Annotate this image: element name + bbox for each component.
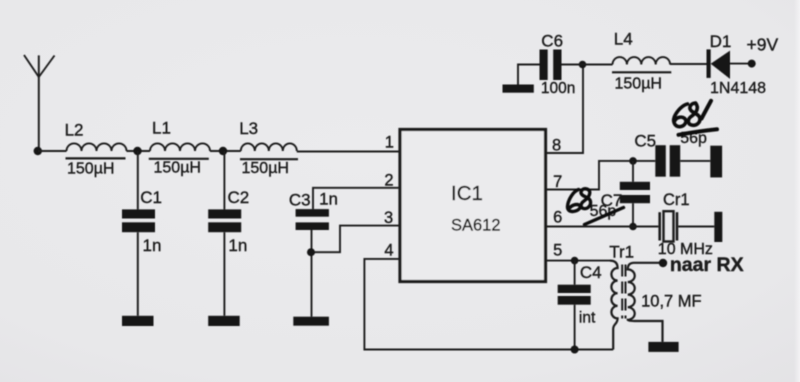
wire: [127, 150, 151, 152]
wire pin 6 to crystal: [546, 226, 658, 228]
svg-text:C1: C1: [140, 188, 162, 207]
handwritten 68 annotation lower (pin6): [567, 189, 623, 225]
wire pin 7 up to C5 row: [546, 161, 655, 190]
antenna: [24, 55, 55, 151]
svg-text:3: 3: [384, 209, 393, 227]
ground Tr1: [648, 342, 678, 352]
capacitor C5: [634, 130, 710, 177]
node C6/L4 junction: [579, 61, 587, 69]
svg-text:L4: L4: [614, 30, 633, 49]
svg-text:C5: C5: [634, 132, 656, 151]
capacitor C6: [540, 31, 576, 97]
wire pin 3: [312, 226, 400, 253]
wire pin 8 up: [546, 65, 583, 154]
ground C1: [122, 316, 154, 326]
svg-text:8: 8: [552, 137, 561, 155]
node junction C1: [133, 147, 141, 155]
svg-text:L1: L1: [152, 119, 171, 138]
wire: [210, 150, 241, 152]
ground C3: [293, 317, 329, 326]
svg-text:1N4148: 1N4148: [710, 80, 766, 97]
svg-text:6: 6: [553, 209, 562, 227]
terminal bar Cr1: [714, 212, 722, 242]
inductor L2: [65, 121, 127, 178]
svg-text:C2: C2: [228, 188, 250, 207]
svg-text:L3: L3: [239, 119, 258, 138]
capacitor C2: [208, 151, 249, 316]
capacitor C3: [289, 190, 338, 317]
node naar RX dot: [659, 259, 667, 267]
capacitor C4: [558, 261, 602, 350]
capacitor C7: [590, 161, 650, 227]
svg-text:SA612: SA612: [451, 217, 501, 235]
node +9V terminal: [748, 60, 756, 68]
svg-text:C6: C6: [541, 31, 563, 50]
svg-text:Tr1: Tr1: [609, 243, 634, 262]
wire pin 4 loop: [364, 259, 613, 350]
svg-text:C3: C3: [289, 190, 311, 209]
svg-text:10,7 MF: 10,7 MF: [641, 293, 702, 311]
svg-text:+9V: +9V: [747, 35, 779, 55]
node C4 top junction: [571, 257, 579, 265]
node C7 top junction: [629, 157, 637, 165]
svg-text:2: 2: [384, 171, 393, 189]
wire main line segment: [38, 150, 67, 152]
primary winding: [610, 261, 618, 350]
wire L4 to D1: [670, 63, 707, 65]
diode D1: [707, 32, 767, 97]
IC IC1 SA612: [400, 130, 546, 282]
svg-text:150µH: 150µH: [67, 161, 114, 178]
svg-text:1n: 1n: [228, 236, 247, 255]
svg-text:5: 5: [553, 242, 562, 260]
svg-text:150µH: 150µH: [242, 160, 289, 177]
svg-text:int: int: [579, 309, 596, 326]
inductor L4: [612, 30, 671, 93]
svg-text:1: 1: [385, 134, 394, 152]
inductor L1: [149, 119, 210, 177]
svg-text:Cr1: Cr1: [663, 191, 690, 209]
svg-text:IC1: IC1: [451, 182, 483, 205]
svg-text:150µH: 150µH: [615, 75, 662, 92]
svg-text:100n: 100n: [541, 80, 575, 97]
terminal bar C5: [710, 146, 722, 178]
inductor L3: [239, 119, 298, 177]
ground C6: [503, 85, 534, 93]
node C4 bottom junction: [571, 346, 579, 354]
svg-text:4: 4: [384, 241, 393, 259]
handwritten 68 annotation top: [674, 101, 717, 135]
svg-text:150µH: 150µH: [154, 160, 201, 177]
wire to pin 1: [297, 151, 399, 153]
node C7 bottom junction: [629, 223, 637, 231]
core: [621, 265, 623, 319]
node C3 bottom junction: [307, 248, 315, 256]
svg-text:naar RX: naar RX: [670, 254, 744, 276]
secondary winding: [628, 263, 663, 342]
wire pin 5: [546, 260, 610, 262]
wire junction to L4: [583, 64, 613, 66]
wire pin 2 to C3: [313, 188, 399, 209]
wire C6 to junction: [562, 64, 583, 66]
capacitor C1: [122, 151, 162, 316]
svg-text:C4: C4: [580, 263, 602, 282]
svg-text:1n: 1n: [143, 236, 162, 255]
crystal Cr1: [658, 191, 715, 258]
svg-text:1n: 1n: [319, 190, 338, 209]
svg-text:L2: L2: [65, 121, 84, 140]
svg-text:D1: D1: [710, 32, 732, 51]
ground C2: [208, 316, 240, 326]
svg-text:7: 7: [553, 173, 562, 191]
node antenna junction: [34, 147, 42, 155]
node junction C2: [219, 147, 227, 155]
transformer Tr1: [609, 243, 701, 350]
wire C6 left to ground: [518, 65, 540, 85]
